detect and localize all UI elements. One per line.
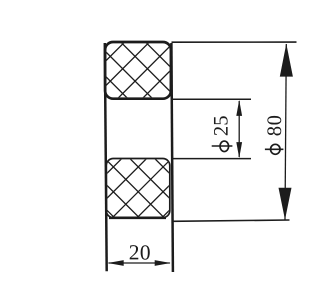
- phi80 dimension line: [285, 44, 286, 220]
- phi80 label: [265, 116, 284, 154]
- width 20 right arrowhead: [155, 260, 171, 266]
- upper section crosshatch: [32, 30, 238, 110]
- lower section box outline: [106, 159, 170, 218]
- lower bore extension line (phi25): [172, 158, 252, 160]
- width 20 left arrowhead: [108, 260, 124, 266]
- lower section crosshatch: [25, 145, 234, 230]
- phi25 upper arrowhead: [236, 100, 242, 116]
- phi25 label: [212, 116, 233, 151]
- width 20 dimension line: [109, 262, 170, 264]
- width 20 label: [130, 245, 150, 260]
- right outline / extension line: [171, 43, 173, 272]
- lower section box bottom edge (thick): [109, 217, 166, 220]
- phi25 dimension line: [238, 101, 240, 157]
- bottom extension line (phi80): [172, 220, 289, 221]
- phi80 upper arrowhead: [280, 44, 293, 77]
- upper section box outline: [105, 42, 171, 99]
- phi25 lower arrowhead: [236, 142, 242, 158]
- upper bore extension line (phi25): [172, 98, 252, 100]
- phi80 lower arrowhead: [279, 188, 292, 220]
- top extension line (phi80): [172, 41, 297, 43]
- left outline / extension line: [105, 43, 107, 271]
